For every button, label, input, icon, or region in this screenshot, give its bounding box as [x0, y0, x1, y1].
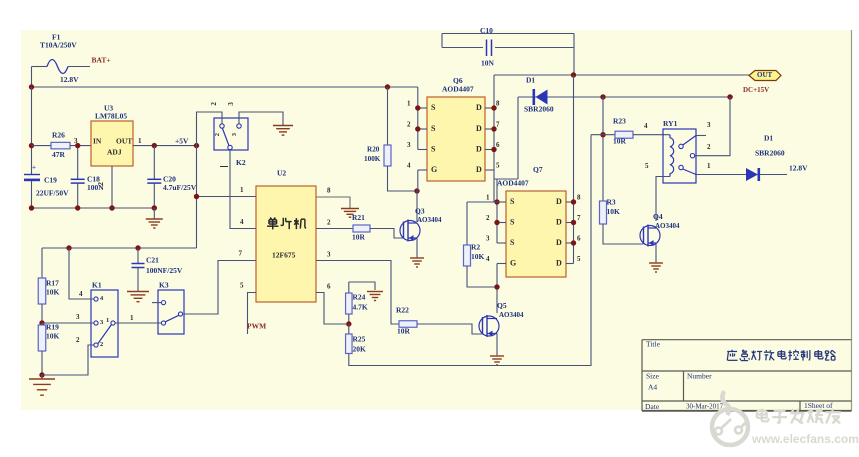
svg-text:47R: 47R	[52, 150, 66, 159]
svg-text:1: 1	[407, 99, 411, 107]
svg-text:6: 6	[577, 234, 581, 242]
svg-text:5: 5	[645, 162, 649, 170]
svg-text:K3: K3	[159, 281, 169, 290]
svg-text:3: 3	[486, 234, 490, 242]
svg-text:10R: 10R	[352, 233, 366, 242]
svg-text:Number: Number	[687, 372, 712, 381]
svg-text:1: 1	[106, 317, 109, 324]
svg-text:R3: R3	[607, 198, 616, 207]
svg-text:R26: R26	[52, 131, 65, 140]
svg-text:2: 2	[707, 143, 711, 151]
svg-text:OUT: OUT	[116, 137, 132, 146]
svg-text:20K: 20K	[353, 345, 367, 354]
svg-text:Size: Size	[646, 372, 660, 381]
svg-text:Q5: Q5	[497, 301, 507, 310]
svg-text:5: 5	[577, 255, 581, 263]
svg-text:4: 4	[407, 161, 411, 169]
svg-text:AOD4407: AOD4407	[497, 179, 529, 188]
svg-text:G: G	[431, 165, 437, 174]
svg-text:D: D	[556, 238, 562, 247]
svg-text:1: 1	[486, 193, 490, 201]
svg-text:3: 3	[407, 141, 411, 149]
svg-text:C19: C19	[44, 176, 57, 185]
svg-text:IN: IN	[93, 137, 102, 146]
svg-text:A4: A4	[648, 383, 657, 392]
svg-text:4.7K: 4.7K	[353, 303, 368, 312]
svg-text:2: 2	[76, 336, 80, 344]
svg-text:2: 2	[407, 120, 411, 128]
svg-text:3: 3	[76, 313, 80, 321]
svg-text:R19: R19	[46, 323, 59, 332]
svg-text:BAT+: BAT+	[92, 56, 111, 65]
svg-text:4.7uF/25V: 4.7uF/25V	[163, 183, 197, 192]
svg-text:5: 5	[496, 161, 500, 169]
svg-text:D: D	[556, 218, 562, 227]
svg-text:R17: R17	[46, 279, 59, 288]
svg-text:7: 7	[496, 120, 500, 128]
svg-text:10K: 10K	[471, 252, 485, 261]
svg-text:D1: D1	[764, 134, 773, 143]
svg-text:10R: 10R	[613, 137, 627, 146]
svg-text:2: 2	[97, 182, 105, 186]
svg-text:PWM: PWM	[247, 322, 266, 331]
svg-text:2: 2	[327, 219, 331, 227]
svg-text:5: 5	[240, 282, 244, 290]
svg-text:RY1: RY1	[663, 119, 678, 128]
svg-text:+: +	[32, 164, 36, 172]
svg-text:Q7: Q7	[533, 165, 543, 174]
svg-text:S: S	[431, 124, 436, 133]
svg-text:S: S	[510, 197, 515, 206]
svg-text:D: D	[556, 197, 562, 206]
svg-text:1: 1	[707, 162, 711, 170]
svg-text:D: D	[476, 103, 482, 112]
svg-text:ADJ: ADJ	[107, 148, 122, 157]
svg-text:7: 7	[577, 214, 581, 222]
svg-text:R24: R24	[353, 293, 366, 302]
svg-text:10R: 10R	[397, 327, 411, 336]
svg-text:100NF/25V: 100NF/25V	[146, 266, 183, 275]
svg-text:+5V: +5V	[175, 137, 189, 146]
svg-text:Q3: Q3	[415, 207, 425, 216]
svg-text:OUT: OUT	[757, 71, 773, 79]
svg-text:K2: K2	[236, 158, 246, 167]
svg-text:2: 2	[214, 133, 221, 136]
svg-text:C10: C10	[480, 26, 493, 35]
svg-text:22UF/50V: 22UF/50V	[36, 189, 69, 198]
svg-text:2: 2	[100, 341, 103, 348]
svg-text:3: 3	[227, 102, 235, 106]
svg-text:T10A/250V: T10A/250V	[40, 41, 77, 50]
svg-text:1: 1	[240, 186, 244, 194]
svg-text:10N: 10N	[481, 59, 495, 68]
svg-text:8: 8	[496, 99, 500, 107]
svg-text:R25: R25	[353, 335, 366, 344]
svg-text:1Sheet of: 1Sheet of	[804, 401, 833, 410]
svg-text:SBR2060: SBR2060	[524, 105, 554, 114]
svg-text:4: 4	[644, 122, 648, 130]
svg-text:R2: R2	[471, 243, 480, 252]
svg-text:D: D	[476, 145, 482, 154]
svg-text:6: 6	[327, 283, 331, 291]
svg-text:4: 4	[240, 218, 244, 226]
svg-text:D: D	[476, 124, 482, 133]
svg-text:100K: 100K	[364, 155, 381, 163]
svg-text:AO3404: AO3404	[499, 311, 524, 319]
svg-text:D1: D1	[526, 76, 535, 85]
svg-text:G: G	[510, 259, 516, 268]
svg-text:1: 1	[138, 137, 142, 145]
svg-text:D: D	[476, 165, 482, 174]
svg-text:LM78L05: LM78L05	[95, 112, 127, 121]
svg-text:U2: U2	[277, 169, 286, 178]
svg-text:R23: R23	[613, 117, 626, 126]
svg-text:AO3404: AO3404	[417, 216, 442, 224]
svg-text:4: 4	[79, 290, 83, 298]
svg-text:10K: 10K	[607, 207, 621, 216]
svg-text:6: 6	[496, 141, 500, 149]
svg-text:SBR2060: SBR2060	[755, 149, 785, 158]
svg-text:AO3404: AO3404	[655, 222, 680, 230]
svg-text:R22: R22	[396, 306, 409, 315]
svg-text:R21: R21	[352, 213, 365, 222]
svg-text:D: D	[556, 259, 562, 268]
svg-text:1: 1	[130, 314, 134, 322]
svg-text:AOD4407: AOD4407	[442, 85, 474, 94]
svg-text:S: S	[510, 218, 515, 227]
svg-text:S: S	[431, 145, 436, 154]
svg-text:K1: K1	[92, 281, 102, 290]
svg-text:www.elecfans.com: www.elecfans.com	[751, 432, 859, 446]
svg-text:4: 4	[486, 255, 490, 263]
svg-text:3: 3	[707, 121, 711, 129]
svg-text:7: 7	[239, 250, 243, 258]
svg-text:R20: R20	[367, 145, 380, 153]
svg-text:12.8V: 12.8V	[789, 164, 808, 173]
svg-text:10K: 10K	[46, 288, 60, 297]
svg-text:30-Mar-2017: 30-Mar-2017	[686, 403, 724, 411]
svg-text:S: S	[510, 238, 515, 247]
svg-text:Date: Date	[645, 402, 660, 411]
svg-text:12.8V: 12.8V	[60, 75, 79, 84]
svg-text:2: 2	[210, 102, 218, 106]
svg-text:10K: 10K	[46, 332, 60, 341]
svg-text:Title: Title	[646, 340, 661, 349]
svg-text:S: S	[431, 103, 436, 112]
svg-text:8: 8	[577, 193, 581, 201]
svg-text:C21: C21	[146, 256, 159, 265]
svg-text:2: 2	[486, 214, 490, 222]
svg-text:3: 3	[327, 251, 331, 259]
svg-text:8: 8	[327, 187, 331, 195]
svg-text:DC+15V: DC+15V	[743, 86, 769, 94]
svg-text:Q4: Q4	[653, 212, 663, 221]
svg-text:12F675: 12F675	[272, 251, 296, 260]
